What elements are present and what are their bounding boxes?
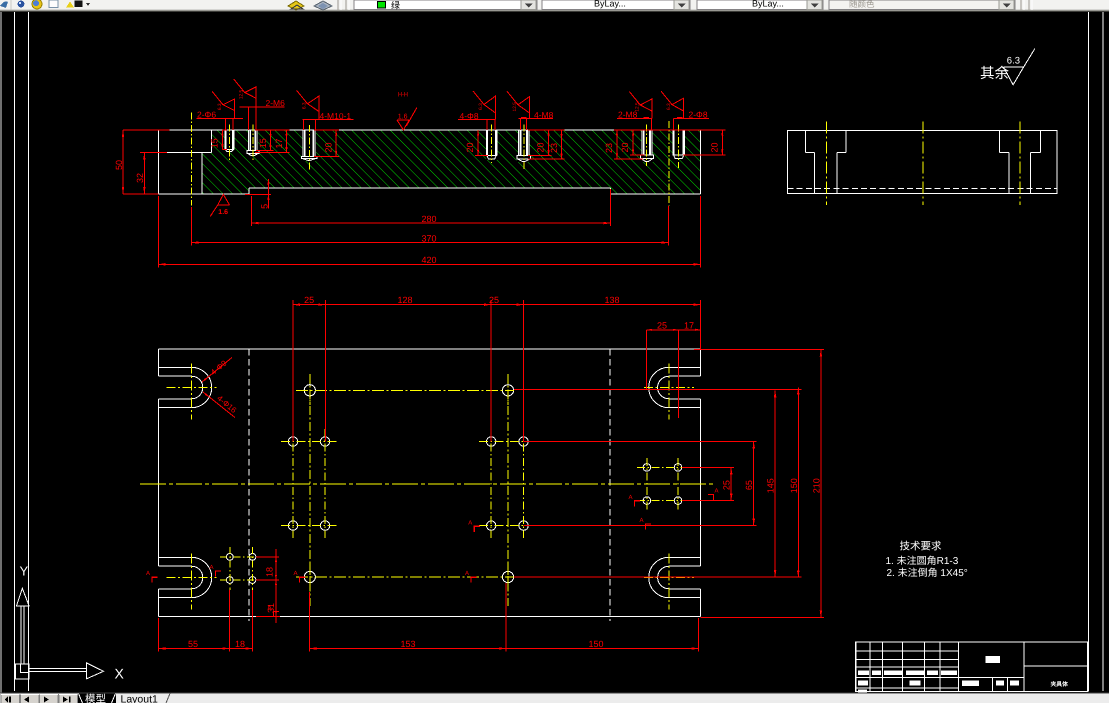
- svg-text:20: 20: [536, 142, 546, 152]
- svg-text:18: 18: [235, 639, 245, 649]
- side view outline: [787, 131, 1057, 194]
- section view centerlines: [228, 125, 230, 161]
- plate outline: [170, 129, 701, 131]
- long column centerlines through big holes: [309, 374, 311, 606]
- yellow centerline through top holes: [296, 389, 514, 391]
- dim 17: [286, 130, 288, 152]
- svg-text:138: 138: [604, 295, 619, 305]
- dim 145: [774, 390, 776, 577]
- svg-text:5: 5: [260, 204, 270, 209]
- dim 20: [477, 130, 479, 155]
- svg-text:A: A: [465, 570, 469, 577]
- dim 5: [267, 179, 269, 209]
- U-slot bottom-left: [159, 554, 217, 610]
- bottom tab bar: [0, 693, 1109, 703]
- svg-text:A: A: [210, 564, 214, 571]
- svg-text:20: 20: [620, 142, 630, 152]
- linetype combo: [697, 0, 823, 10]
- svg-text:150: 150: [588, 639, 603, 649]
- svg-text:23: 23: [604, 143, 614, 153]
- plan view outline: [159, 348, 701, 350]
- sheet border right lines: [1088, 12, 1090, 691]
- slot labels 4-Phi9 / 4-Phi16: [202, 358, 232, 383]
- svg-text:23: 23: [549, 143, 559, 153]
- dim 25: [730, 467, 732, 500]
- left small dims 18 / 31: [275, 549, 277, 623]
- hole pairs center group: [487, 437, 496, 446]
- roughness symbols: [212, 91, 235, 118]
- svg-text:6.3: 6.3: [1007, 56, 1020, 67]
- hole 2-Phi6: [224, 130, 234, 152]
- section direction marks (small red): [468, 519, 480, 532]
- svg-text:280: 280: [422, 214, 437, 224]
- svg-text:A: A: [640, 517, 644, 524]
- svg-text:6.3: 6.3: [478, 103, 484, 110]
- dim 23: [616, 130, 618, 159]
- svg-text:210: 210: [811, 478, 821, 493]
- U-slot bottom-right: [644, 554, 701, 610]
- svg-text:17: 17: [274, 138, 284, 148]
- svg-text:150: 150: [789, 478, 799, 493]
- side view hidden line: [787, 187, 1057, 189]
- svg-text:17: 17: [684, 320, 694, 330]
- svg-text:370: 370: [422, 234, 437, 244]
- title block: [856, 642, 1088, 692]
- svg-text:128: 128: [397, 295, 412, 305]
- depth dimensions: [210, 130, 224, 149]
- svg-text:420: 420: [422, 255, 437, 265]
- svg-text:18: 18: [265, 567, 275, 577]
- roughness 1.6 bottom: [218, 194, 230, 205]
- svg-text:1. 未注圆角R1-3: 1. 未注圆角R1-3: [886, 555, 959, 567]
- svg-text:25: 25: [304, 295, 314, 305]
- toolbar icons left: [0, 2, 8, 9]
- vcr buttons: [1, 695, 20, 703]
- svg-text:145: 145: [766, 478, 776, 493]
- hole pairs left group: [288, 437, 297, 446]
- dim 20: [335, 130, 337, 156]
- U-slot top-left: [159, 364, 217, 420]
- svg-text:A: A: [146, 570, 150, 577]
- dim 20: [632, 130, 634, 155]
- rough 6.3: [223, 99, 235, 111]
- svg-text:25: 25: [657, 320, 667, 330]
- svg-text:50: 50: [114, 160, 124, 170]
- dim 15: [270, 130, 272, 150]
- svg-text:1.6: 1.6: [218, 209, 228, 216]
- dim 20: [721, 130, 723, 155]
- hole 2-M8: [640, 130, 654, 162]
- right 2x2 hole group: [643, 464, 651, 472]
- hole labels: [197, 110, 243, 130]
- svg-text:25: 25: [722, 480, 732, 490]
- rough 12.5: [640, 99, 652, 111]
- svg-text:Layout1: Layout1: [121, 694, 159, 703]
- svg-text:A: A: [629, 494, 633, 501]
- svg-text:A: A: [268, 605, 272, 612]
- bottom dim row: 55 18 153 150: [159, 648, 253, 650]
- svg-text:A: A: [294, 570, 298, 577]
- svg-text:模型: 模型: [85, 694, 106, 703]
- svg-text:12.5: 12.5: [239, 90, 245, 100]
- svg-text:153: 153: [400, 639, 415, 649]
- dim 32: [143, 153, 145, 194]
- rough 12.5: [245, 87, 257, 99]
- rough 12.5: [518, 97, 530, 113]
- svg-text:65: 65: [744, 480, 754, 490]
- second dim row: 25 17: [647, 329, 701, 331]
- svg-text:6.3: 6.3: [666, 103, 672, 110]
- svg-text:其余: 其余: [980, 65, 1009, 82]
- svg-text:随颜色: 随颜色: [849, 0, 875, 9]
- hole 2-Phi8: [673, 130, 685, 159]
- toolbar strip: [0, 0, 1109, 12]
- rough 6.3: [308, 96, 320, 112]
- dim 370: [191, 242, 668, 244]
- side view centerlines: [825, 121, 827, 205]
- svg-text:15: 15: [210, 138, 220, 148]
- dim 50: [122, 130, 124, 194]
- svg-text:12.5: 12.5: [512, 102, 518, 112]
- small hole group bottom-left: [226, 554, 233, 561]
- hole 2-M6: [246, 130, 259, 156]
- svg-text:55: 55: [188, 639, 198, 649]
- svg-text:6.3: 6.3: [217, 103, 223, 110]
- dim 420: [158, 263, 700, 265]
- big holes top/bottom rows: [304, 385, 315, 396]
- dim 15: [221, 130, 223, 149]
- svg-text:技术要求: 技术要求: [900, 541, 942, 553]
- rough 6.3: [484, 96, 496, 113]
- color combo: [542, 0, 690, 10]
- depth dim extension lines: [222, 149, 227, 151]
- layer icons: [288, 1, 304, 10]
- svg-text:2. 未注倒角 1X45°: 2. 未注倒角 1X45°: [887, 567, 968, 579]
- dim 210: [820, 350, 822, 618]
- dim 20: [548, 130, 550, 156]
- svg-text:X: X: [115, 666, 125, 682]
- svg-text:ByLay...: ByLay...: [594, 0, 626, 9]
- layer combo: [354, 0, 537, 10]
- svg-text:夹具体: 夹具体: [1051, 681, 1069, 688]
- hidden dashed lines (recess edges): [248, 349, 250, 621]
- svg-text:20: 20: [465, 142, 475, 152]
- title block text blobs: [858, 671, 869, 676]
- svg-text:Y: Y: [20, 564, 29, 579]
- svg-text:12.5: 12.5: [634, 102, 640, 112]
- svg-text:20: 20: [323, 142, 333, 152]
- hole 4-Phi8: [486, 130, 498, 160]
- roughness 1.6 top: [397, 119, 409, 121]
- model tab (active, dark): [78, 694, 116, 703]
- top dim row: 25 128 25 138: [293, 304, 701, 306]
- right dim stack 25 65 145 150 210: [722, 467, 733, 500]
- svg-text:1.6: 1.6: [398, 114, 408, 121]
- svg-text:15: 15: [258, 138, 268, 148]
- sheet border left lines: [0, 12, 2, 693]
- U-slot top-right: [644, 364, 701, 420]
- svg-text:6.3: 6.3: [302, 102, 308, 109]
- side view T-slot right: [998, 131, 1000, 153]
- svg-text:32: 32: [135, 173, 145, 183]
- rough 6.3: [672, 98, 684, 111]
- hole 4-M10-1: [301, 130, 317, 161]
- dim 23: [561, 130, 563, 159]
- svg-text:ByLay...: ByLay...: [752, 0, 784, 9]
- side view T-slot left: [805, 131, 807, 153]
- svg-text:20: 20: [709, 142, 719, 152]
- main horizontal centerline: [140, 483, 714, 485]
- svg-text:H-H: H-H: [398, 92, 408, 99]
- lineweight combo: [829, 0, 1015, 10]
- dim 65: [753, 442, 755, 526]
- hole 4-M8: [517, 130, 531, 162]
- svg-text:A: A: [468, 519, 472, 526]
- svg-text:绿: 绿: [391, 1, 400, 11]
- svg-text:A: A: [715, 488, 719, 495]
- dim 150: [797, 388, 799, 578]
- dim 280: [252, 222, 611, 224]
